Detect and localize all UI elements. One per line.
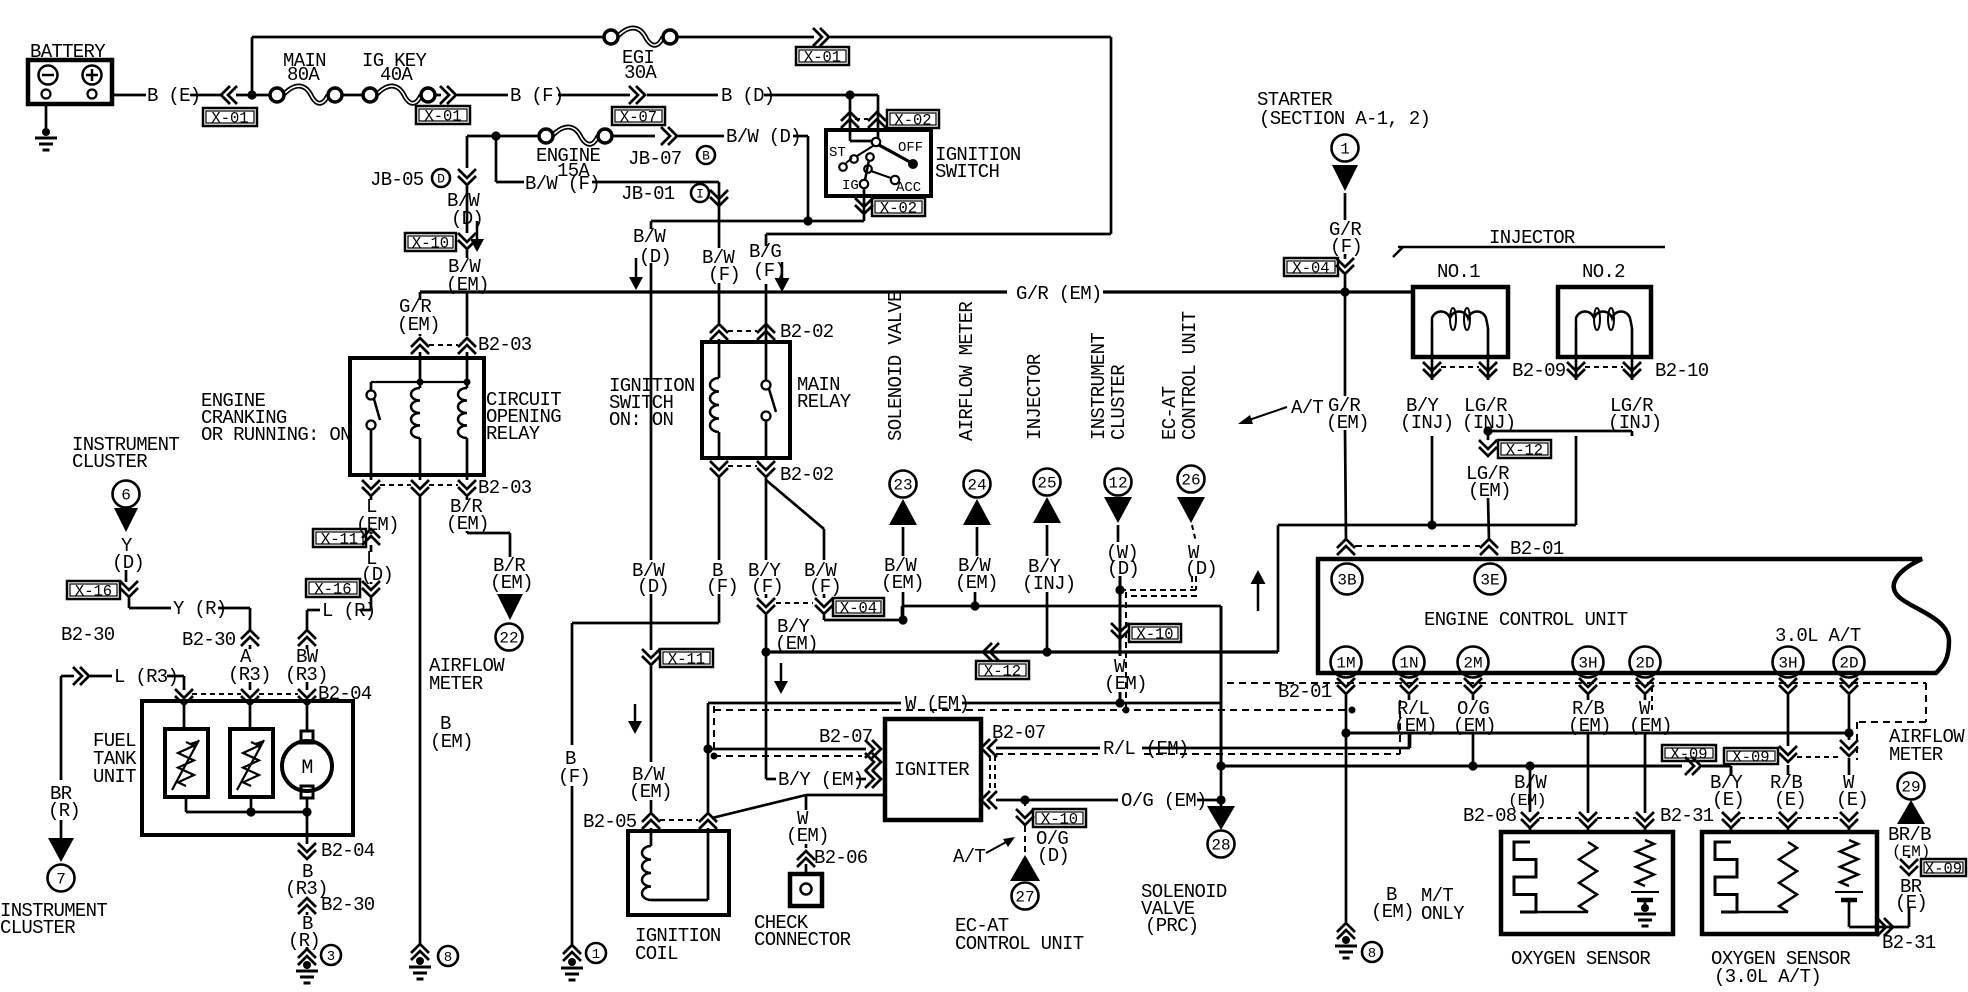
- wire between fuses: [343, 94, 362, 97]
- svg-text:X-09: X-09: [1732, 749, 1769, 767]
- wire LGR to 3E: [1488, 498, 1489, 540]
- ecu pin 2M x1473: [1458, 647, 1489, 678]
- relay coil2 wire: [466, 358, 469, 388]
- svg-text:X-12: X-12: [984, 663, 1021, 681]
- svg-text:3B: 3B: [1337, 571, 1356, 589]
- connector chevron JB-05: [458, 169, 476, 178]
- node LGR junction: [1483, 426, 1492, 435]
- svg-text:(INJ): (INJ): [1400, 412, 1454, 434]
- fuel pump motor bottom connector: [301, 786, 313, 798]
- svg-text:B/W (F): B/W (F): [525, 173, 600, 195]
- svg-text:B2-01: B2-01: [1510, 538, 1564, 560]
- svg-text:3.0L A/T: 3.0L A/T: [1775, 625, 1861, 647]
- wire BW into tank: [306, 706, 309, 731]
- main relay switch wire a: [765, 342, 768, 381]
- node tank b: [302, 807, 311, 816]
- svg-text:ONLY: ONLY: [1421, 903, 1465, 925]
- connector chevron igniter out OG: [988, 791, 997, 809]
- wire to ground 3: [306, 912, 309, 915]
- svg-text:NO.2: NO.2: [1582, 261, 1625, 283]
- svg-text:(EM): (EM): [1371, 901, 1414, 923]
- dashed link o2a: [1539, 817, 1579, 819]
- connector chevron B2-03b 3: [458, 480, 476, 489]
- svg-text:X-01: X-01: [804, 49, 841, 67]
- wire y606 run: [902, 605, 1221, 608]
- node BW o2 tap: [1525, 761, 1534, 770]
- svg-text:B2-01: B2-01: [1278, 681, 1332, 703]
- wire Y col: [125, 570, 128, 582]
- wire ENGINE fuse feed corner: [467, 135, 538, 138]
- wire 25 stub: [1046, 525, 1049, 556]
- o2s2 cell wire: [1848, 900, 1851, 927]
- fuel tank unit box: [142, 701, 353, 835]
- svg-text:B2-06: B2-06: [814, 847, 868, 869]
- connector chevron B2-30 c: [73, 667, 82, 685]
- oxygen sensor 1 box: [1501, 832, 1673, 934]
- connector circle 28: [1208, 831, 1235, 858]
- wire G/R EM bus: [420, 290, 1007, 293]
- svg-text:(D): (D): [637, 576, 669, 598]
- connector chevron igniter in3: [865, 770, 874, 788]
- connector circle 8 a: [438, 946, 458, 966]
- svg-text:B: B: [702, 148, 710, 163]
- connector chevron B2-10 a: [1567, 362, 1585, 371]
- battery plus terminal symbol: [83, 66, 102, 85]
- connector chevron B2-05 a: [642, 820, 660, 829]
- wire coil feed: [718, 339, 721, 342]
- wire B F gnd cont: [571, 786, 574, 945]
- svg-text:JB-07: JB-07: [628, 148, 682, 170]
- wire 2M drop: [1472, 695, 1475, 700]
- wire x651 low: [650, 666, 653, 762]
- wire 24 stub: [976, 527, 979, 556]
- wire B/W(D) drop: [807, 136, 810, 221]
- svg-text:2D: 2D: [1839, 654, 1858, 672]
- svg-text:28: 28: [1211, 836, 1230, 854]
- node OG x1025: [1020, 795, 1029, 804]
- main relay box: [702, 342, 790, 458]
- dashed OG D drop b: [1024, 826, 1026, 854]
- connector chevron JB-07: [661, 127, 670, 145]
- switch contact mid: [866, 153, 874, 161]
- connector chevron X-12 line: [990, 643, 999, 661]
- svg-text:(D): (D): [112, 552, 144, 574]
- svg-text:3H: 3H: [1578, 654, 1597, 672]
- wire L col a: [370, 497, 373, 500]
- dashed link B2-04: [192, 693, 241, 695]
- ignition coil inner wire: [651, 899, 708, 902]
- svg-text:(D): (D): [1107, 558, 1139, 580]
- node 2D2 join: [1844, 728, 1853, 737]
- wire switch feed a: [849, 95, 852, 141]
- svg-text:O/G (EM): O/G (EM): [1121, 790, 1207, 812]
- wire B/W(D) to drop: [793, 135, 808, 138]
- svg-text:B2-03: B2-03: [478, 477, 532, 499]
- arrow ecat 27: [1010, 855, 1040, 881]
- wire battery to ground: [45, 104, 48, 132]
- svg-text:(R): (R): [288, 930, 320, 952]
- svg-text:OXYGEN SENSOR: OXYGEN SENSOR: [1511, 948, 1650, 970]
- relay coil1 wire: [419, 358, 422, 388]
- relay switch arm: [374, 399, 380, 420]
- connector X-01 box 1: [203, 108, 257, 126]
- wire W EM horiz b: [962, 702, 1221, 705]
- main relay switch contact top: [762, 381, 771, 390]
- connector chevron X-04 starter: [1336, 258, 1354, 267]
- svg-text:(INJ): (INJ): [1022, 573, 1076, 595]
- svg-text:INJECTOR: INJECTOR: [1489, 227, 1575, 249]
- wire tank out: [306, 812, 309, 844]
- oxygen sensor 2 box: [1702, 832, 1877, 934]
- svg-text:CLUSTER: CLUSTER: [1108, 365, 1130, 440]
- wire BR E riser: [1908, 908, 1911, 927]
- wire switch feed b: [877, 95, 880, 138]
- connector X-11 box right: [660, 649, 713, 667]
- wire relay drop c: [466, 475, 469, 480]
- connector chevron B2-05 c wire: [707, 828, 710, 831]
- arrow A/T upper: [1246, 407, 1287, 421]
- connector circle 12: [1105, 469, 1132, 496]
- connector X-04 box starter: [1284, 258, 1338, 276]
- svg-text:X-10: X-10: [412, 235, 449, 253]
- wire starter down b: [1344, 254, 1347, 259]
- wire B/W(F) riser: [495, 136, 498, 182]
- dashed OG D drop: [1024, 800, 1026, 810]
- arrow 26: [1177, 497, 1205, 523]
- wire BY EM thick: [766, 650, 1278, 653]
- svg-text:IGNITER: IGNITER: [894, 759, 969, 781]
- wire x1221 drop: [1220, 606, 1223, 766]
- wire G/R EM bus right: [1103, 290, 1413, 293]
- node W dashed tap: [711, 753, 718, 760]
- connector chevron B2-04 a: [175, 689, 193, 698]
- wire switch feed: [765, 339, 768, 342]
- wire L R3 mid: [90, 675, 112, 678]
- connector circle 27: [1012, 883, 1039, 910]
- svg-text:(E): (E): [1895, 892, 1927, 914]
- svg-text:(E): (E): [1712, 789, 1744, 811]
- ecu pin 2D x1849: [1834, 647, 1865, 678]
- circuit opening relay box: [350, 358, 484, 475]
- svg-text:X-11: X-11: [321, 531, 358, 549]
- fuel gauge sender 2 box: [230, 729, 273, 797]
- engine control unit box: [1318, 559, 1949, 673]
- svg-text:1N: 1N: [1399, 654, 1418, 672]
- svg-text:B/W (D): B/W (D): [726, 126, 801, 148]
- arrow solenoid 28: [1207, 806, 1235, 830]
- wire 23 stub: [902, 527, 905, 556]
- connector chevron BW line: [1685, 757, 1694, 775]
- dashed 2D side: [1651, 687, 1653, 712]
- connector chevron 3H x1588: [1579, 678, 1597, 687]
- battery plus post: [88, 90, 97, 99]
- fuse IG KEY 40A: [377, 86, 421, 103]
- svg-text:ST: ST: [829, 145, 846, 161]
- svg-text:(EM): (EM): [490, 572, 533, 594]
- wire BW heater line: [1221, 765, 1682, 768]
- wire 2D2 drop: [1848, 695, 1851, 733]
- dashed link B2-01 bottom: [1227, 682, 1926, 684]
- connector circle B: [697, 146, 715, 164]
- node B(D) junction: [845, 90, 854, 99]
- wire B x719 down: [718, 478, 721, 560]
- switch arm to OFF: [879, 145, 910, 162]
- dashed link B2-01 top: [1355, 545, 1480, 547]
- ecu pin 3H x1788: [1773, 647, 1804, 678]
- wire y621 horiz: [572, 622, 719, 625]
- relay coil1: [411, 388, 420, 438]
- svg-text:IG: IG: [842, 178, 859, 194]
- wire 24 down: [974, 592, 977, 606]
- svg-text:A/T: A/T: [1291, 397, 1323, 419]
- svg-text:29: 29: [1901, 778, 1920, 796]
- svg-text:CONNECTOR: CONNECTOR: [754, 929, 851, 951]
- wire B F ground drop: [571, 623, 574, 745]
- ecu pin 2D x1645: [1630, 647, 1661, 678]
- battery minus post: [42, 90, 51, 99]
- connector chevron 2D x1645: [1636, 678, 1654, 687]
- svg-text:SOLENOID VALVE: SOLENOID VALVE: [885, 291, 907, 441]
- wire B/G drop: [765, 234, 768, 246]
- wire 1N drop: [1408, 695, 1411, 700]
- wire bus corner down: [419, 292, 422, 300]
- wire BW drop: [306, 645, 309, 649]
- connector chevron B2-02 bot a: [710, 461, 728, 470]
- svg-text:B2-31: B2-31: [1882, 932, 1936, 954]
- injector NO.1 box: [1413, 287, 1508, 357]
- connector X-10 box ecat: [1033, 809, 1086, 827]
- switch pivot: [872, 138, 880, 146]
- node bus starter junction: [1340, 287, 1349, 296]
- connector X-01 box 3: [796, 47, 849, 65]
- dashed link B2-10: [1585, 366, 1623, 368]
- wire check conn drop b: [805, 844, 808, 848]
- connector circle 3: [321, 945, 341, 965]
- wire W EM horiz: [708, 702, 901, 705]
- svg-text:INSTRUMENT: INSTRUMENT: [1088, 333, 1110, 440]
- wire BR E out: [1874, 926, 1909, 929]
- wire sender1 bottom: [185, 797, 188, 812]
- svg-text:B2-10: B2-10: [1655, 360, 1709, 382]
- svg-text:(R): (R): [48, 800, 80, 822]
- wire B/G cont: [765, 284, 768, 342]
- svg-text:(E): (E): [1774, 789, 1806, 811]
- svg-text:JB-05: JB-05: [370, 169, 424, 191]
- connector chevron B2-04 b: [241, 689, 259, 698]
- connector chevron gnd8b: [1337, 930, 1355, 939]
- svg-text:(EM): (EM): [1453, 715, 1496, 737]
- wire 3H2 drop: [1787, 695, 1790, 746]
- dashed link o2b: [1740, 817, 1779, 819]
- wire 3H drop: [1587, 695, 1590, 700]
- wire into relay b: [466, 352, 469, 358]
- connector chevron X-01 left: [228, 86, 237, 104]
- wire IG terminal down: [863, 188, 866, 198]
- connector X-11 box left: [313, 529, 366, 547]
- connector X-02 box top: [887, 110, 939, 128]
- ecu pin 3E: [1475, 564, 1506, 595]
- dashed 26 down: [1195, 576, 1197, 590]
- connector circle 29: [1898, 773, 1925, 800]
- fuel pump motor connector: [301, 731, 313, 743]
- wire after engine fuse: [613, 135, 655, 138]
- injector NO.2 pin a: [1575, 328, 1578, 380]
- connector chevron X-10 left: [458, 233, 476, 242]
- svg-text:(D): (D): [639, 246, 671, 268]
- connector circle 25: [1034, 469, 1061, 496]
- svg-text:40A: 40A: [380, 64, 413, 86]
- wire R/L solid b: [1142, 747, 1410, 750]
- svg-text:UNIT: UNIT: [93, 766, 136, 788]
- wire JB-05 col bottom: [466, 250, 469, 258]
- wire x651 mid: [650, 594, 653, 650]
- wire to B(F): [457, 94, 508, 97]
- dashed igniter side: [989, 756, 991, 792]
- connector chevron X-02 lower: [855, 198, 873, 207]
- connector chevron X-16 right: [362, 581, 380, 590]
- switch contact ST: [850, 155, 858, 163]
- connector chevron B2-09 a: [1423, 362, 1441, 371]
- wire 1M ground drop: [1345, 733, 1348, 922]
- node tank a: [246, 807, 255, 816]
- ground 8a: [416, 957, 424, 965]
- wire O/G solid: [996, 799, 1118, 802]
- svg-text:X-16: X-16: [75, 583, 112, 601]
- wire BY inj riser: [1277, 525, 1280, 652]
- connector chevron B2-08: [1521, 812, 1539, 821]
- relay node coil2: [464, 379, 471, 386]
- connector X-04 box: [833, 598, 884, 616]
- connector X-16 box left: [67, 581, 120, 599]
- wire check conn drop c: [805, 864, 808, 874]
- connector X-09 box 1: [1662, 745, 1716, 761]
- dashed W companion vert: [713, 706, 715, 756]
- connector chevron X-10 ecat: [1016, 809, 1034, 818]
- connector chevron X-09 br: [1900, 859, 1918, 868]
- connector chevron o2b right: [1840, 812, 1858, 821]
- node y620 solenoid: [898, 615, 907, 624]
- connector circle 1 starter: [1332, 135, 1359, 162]
- ground o2s1 internal: [1641, 904, 1649, 912]
- svg-text:B/W: B/W: [633, 226, 666, 248]
- svg-text:M: M: [301, 757, 312, 780]
- switch arm ig: [865, 160, 869, 180]
- ignition switch box: [826, 130, 931, 196]
- svg-text:(F): (F): [558, 766, 590, 788]
- o2s2 cell resistor: [1840, 840, 1858, 886]
- dashed link B2-02 top: [728, 330, 757, 332]
- connector X-12 box igniter: [976, 661, 1029, 679]
- connector X-16 box right: [306, 579, 360, 597]
- wire L R cont: [307, 609, 320, 612]
- connector chevron X-02 b: [868, 119, 886, 128]
- node W EM x1120: [1115, 698, 1124, 707]
- wire relay drop a: [370, 475, 373, 480]
- connector chevron B2-30 bw: [298, 637, 316, 646]
- svg-text:(EM): (EM): [1468, 480, 1511, 502]
- connector chevron B2-30 a: [241, 637, 259, 646]
- svg-text:B2-02: B2-02: [780, 464, 834, 486]
- dashed 26 stub: [1192, 525, 1196, 542]
- switch contact ACC: [891, 176, 899, 184]
- connector chevron B2-06: [797, 858, 815, 867]
- svg-text:L (R): L (R): [322, 600, 376, 622]
- wire L R3 left: [61, 675, 74, 678]
- wire to junction: [236, 94, 270, 97]
- wire after IG KEY: [436, 94, 441, 97]
- igniter box: [885, 719, 981, 820]
- svg-text:(EM): (EM): [1394, 715, 1437, 737]
- svg-text:X-07: X-07: [620, 109, 657, 127]
- connector chevron B2-02 bot b: [757, 461, 775, 470]
- svg-text:(EM): (EM): [1629, 715, 1672, 737]
- connector chevron o2b left: [1722, 812, 1740, 821]
- wire 12 stub: [1117, 525, 1120, 542]
- svg-text:22: 22: [499, 629, 518, 647]
- svg-text:B2-30: B2-30: [61, 624, 115, 646]
- wire starter down c: [1344, 275, 1347, 292]
- fuel gauge sender 2 element: [243, 742, 259, 786]
- svg-text:B/W: B/W: [1514, 772, 1547, 794]
- svg-text:X-10: X-10: [1041, 811, 1078, 829]
- wire motor bottom: [306, 798, 309, 812]
- svg-text:27: 27: [1015, 888, 1034, 906]
- arrow direction B/G: [781, 262, 784, 280]
- svg-text:EC-AT: EC-AT: [1159, 386, 1181, 440]
- ground 3: [303, 961, 311, 969]
- svg-text:B (F): B (F): [510, 85, 564, 107]
- svg-text:SWITCH: SWITCH: [935, 161, 999, 183]
- svg-text:1: 1: [592, 947, 600, 963]
- connector circle 1: [586, 943, 606, 963]
- connector chevron B2-30 out: [298, 905, 316, 914]
- connector chevron X-01 egi: [813, 28, 822, 46]
- main relay switch arm: [769, 389, 776, 412]
- wire 12 thick down: [1119, 576, 1122, 656]
- wire B x719 end: [718, 594, 721, 623]
- wire BR B riser: [1908, 856, 1911, 858]
- svg-text:B2-31: B2-31: [1660, 805, 1714, 827]
- node ENGINE fuse junction: [491, 131, 500, 140]
- svg-text:RELAY: RELAY: [797, 391, 852, 413]
- connector chevron o2b mid: [1779, 812, 1797, 821]
- wire B/Y x766 end: [765, 594, 768, 598]
- connector circle 26: [1178, 466, 1205, 493]
- connector chevron 3H x1788: [1779, 678, 1797, 687]
- main relay switch wire b: [765, 420, 768, 458]
- dashed link X-04: [776, 602, 813, 604]
- connector chevron B2-03 left: [411, 345, 429, 354]
- wire 2D2 drop c: [1848, 758, 1851, 775]
- svg-text:(EM): (EM): [397, 314, 440, 336]
- svg-text:(EM): (EM): [1326, 412, 1369, 434]
- arrow starter: [1332, 165, 1358, 191]
- connector circle 6: [113, 481, 140, 508]
- wire B/R corner: [467, 532, 510, 535]
- svg-text:80A: 80A: [287, 64, 320, 86]
- dashed R/L: [996, 753, 1098, 755]
- arrow 24: [963, 499, 991, 525]
- o2s1 cell wire: [1644, 900, 1647, 908]
- wire R/L solid: [996, 747, 1100, 750]
- wire BW heater line b: [1702, 765, 1731, 768]
- battery B1: [28, 60, 112, 104]
- wire B/Y x766 down: [765, 478, 768, 560]
- connector X-09 box 3: [1921, 859, 1966, 876]
- svg-text:(EM): (EM): [1892, 843, 1930, 861]
- wire top bus right: [830, 36, 1111, 39]
- svg-text:OFF: OFF: [898, 140, 923, 156]
